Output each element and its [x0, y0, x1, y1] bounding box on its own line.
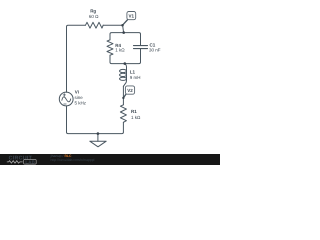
wire bottom rail of parallel RC — [110, 62, 141, 64]
svg-text:1 kΩ: 1 kΩ — [131, 115, 141, 120]
ground — [90, 141, 106, 147]
junction dot at V2 attach — [122, 97, 124, 99]
sine symbol inside Vi — [61, 96, 71, 103]
node flag V2 pointer — [123, 94, 126, 98]
capacitor C1 — [134, 46, 148, 49]
footer logo zigzag — [7, 161, 23, 163]
wire from Rg to node V1 corner — [103, 24, 122, 26]
wire top rail of parallel RC — [110, 33, 141, 35]
footer logo LAB — [24, 160, 37, 165]
node flag V1 pointer — [123, 20, 128, 25]
junction dot at ground — [97, 132, 100, 135]
svg-text:30 nF: 30 nF — [149, 48, 161, 53]
resistor R4 — [107, 40, 113, 55]
wire right branch leads — [140, 34, 142, 62]
minus sign inside Vi — [64, 103, 66, 105]
wire bottom return — [67, 132, 124, 134]
footer bar — [0, 154, 220, 165]
svg-text:LAB: LAB — [25, 159, 35, 164]
svg-text:V1: V1 — [129, 13, 135, 18]
node V2 box — [125, 86, 134, 94]
voltage source Vi circle — [59, 92, 73, 106]
svg-text:60 Ω: 60 Ω — [89, 14, 99, 19]
wire L1 to R1 — [122, 86, 124, 105]
svg-text:http://circuitlab.com/c/mapppl: http://circuitlab.com/c/mapppl — [51, 158, 95, 162]
inductor L1 — [125, 64, 127, 81]
svg-text:5 kHz: 5 kHz — [75, 100, 87, 105]
node V1 box — [127, 12, 136, 20]
plus sign inside Vi — [63, 94, 65, 96]
wire left lower (source to bottom) — [66, 106, 68, 132]
wire left branch leads — [109, 34, 111, 62]
svg-text:Rg: Rg — [90, 8, 96, 13]
junction dot bottom rail — [124, 62, 127, 65]
svg-text:R1: R1 — [131, 109, 137, 114]
ground stub — [97, 134, 99, 142]
svg-text:L1: L1 — [130, 70, 136, 75]
wire R1 to bottom rail — [122, 122, 124, 132]
svg-text:Vi: Vi — [75, 90, 79, 95]
resistor Rg — [86, 22, 104, 28]
junction dot at V1 corner — [121, 24, 124, 27]
svg-text:V2: V2 — [127, 88, 133, 93]
wire feed down to parallel network — [123, 25, 124, 32]
svg-text:9 mH: 9 mH — [130, 75, 141, 80]
wire top (left segment from source loop to Rg) — [67, 25, 86, 92]
resistor R1 — [120, 105, 126, 123]
svg-text:1 kΩ: 1 kΩ — [115, 47, 125, 52]
junction dot top rail — [122, 31, 125, 34]
